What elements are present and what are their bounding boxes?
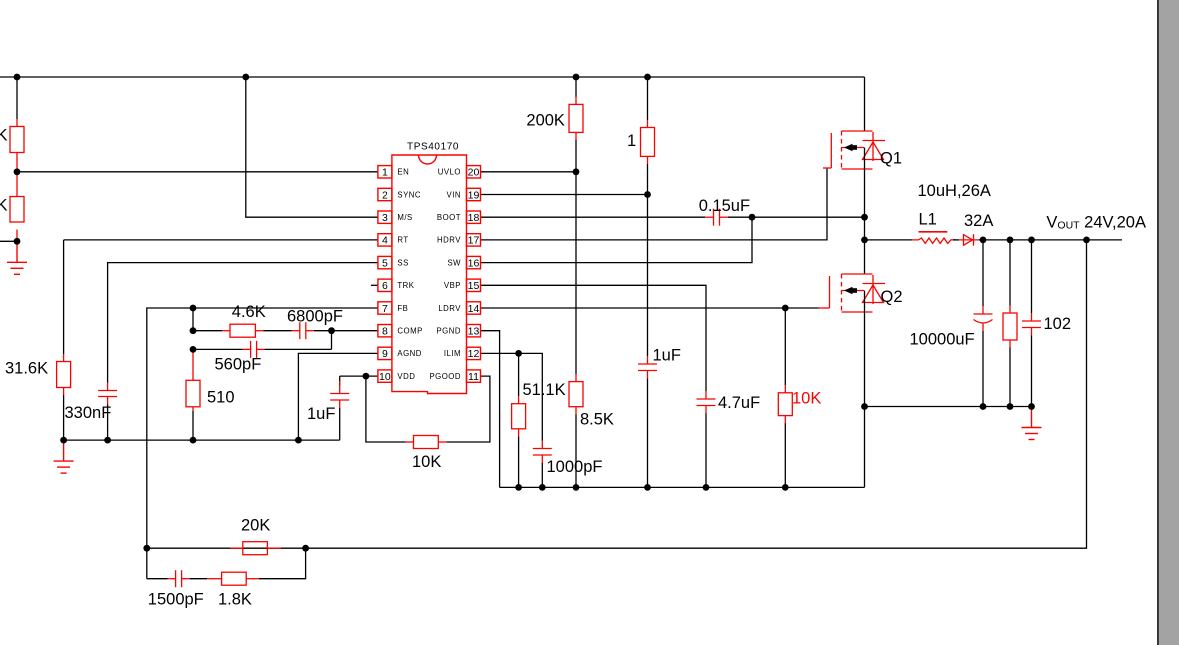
node vout 102 xyxy=(1028,237,1035,244)
svg-text:31.6K: 31.6K xyxy=(5,360,48,378)
wire M/S vertical from rail xyxy=(246,77,378,217)
node bottom rail 1uF xyxy=(644,484,651,491)
svg-text:TPS40170: TPS40170 xyxy=(407,142,459,153)
capacitor 0.15uF boot xyxy=(706,209,728,226)
node FB junction xyxy=(190,305,197,312)
VOUT rail wire xyxy=(979,239,1122,241)
svg-text:16: 16 xyxy=(468,257,480,269)
svg-text:AGND: AGND xyxy=(397,349,422,358)
node outlow resistor xyxy=(1007,403,1014,410)
svg-text:SS: SS xyxy=(397,258,408,267)
Q2 gate foot xyxy=(819,307,830,309)
bottom power-ground rail wire xyxy=(500,486,865,488)
svg-text:SW: SW xyxy=(447,258,461,267)
capacitor 102 xyxy=(1022,313,1041,336)
wire LDRV net pin 14 to Q2 gate xyxy=(481,307,819,309)
wire COMP junction riser for 560pF xyxy=(331,331,333,350)
transistor Q1 xyxy=(831,131,885,169)
svg-text:10000uF: 10000uF xyxy=(910,331,975,349)
wire feedback from VOUT xyxy=(147,240,1087,548)
wire AGND net xyxy=(298,353,378,440)
node agnd rail 31.6K xyxy=(60,437,67,444)
resistor 51.1K lead xyxy=(518,353,520,396)
inductor L1 winding xyxy=(912,238,956,243)
svg-text:1uF: 1uF xyxy=(307,405,335,423)
wire 10K lower gate resistor lead xyxy=(784,308,786,385)
wire 1ohm to VIN node xyxy=(647,164,649,195)
node vout feedback xyxy=(1083,237,1090,244)
wire TRK pin 6 stub xyxy=(371,284,378,286)
capacitor 1uF vin xyxy=(638,356,657,379)
node fb 20K right xyxy=(302,545,309,552)
diode 32A xyxy=(959,234,978,246)
node VIN junction xyxy=(644,191,651,198)
svg-text:VBP: VBP xyxy=(444,281,461,290)
ground symbol output xyxy=(1022,407,1042,440)
wire feedforward branch lower xyxy=(147,578,168,580)
node switch node inductor xyxy=(861,237,868,244)
resistor 1ohm xyxy=(641,120,655,164)
inductor L1 core bar xyxy=(919,231,948,233)
wire PGOOD pullup from VDD junction xyxy=(366,376,406,442)
svg-text:1000pF: 1000pF xyxy=(547,458,603,476)
wire 330nF to ground rail xyxy=(107,405,109,441)
svg-text:9: 9 xyxy=(382,348,388,360)
wire 1.8K to right corner xyxy=(259,548,306,579)
wire 200K to UVLO node xyxy=(575,140,577,172)
wire Q1 source to Q2 drain (switch node) xyxy=(864,148,866,275)
wire FB net xyxy=(147,308,378,548)
pin 16 box xyxy=(467,256,481,268)
svg-text:330nF: 330nF xyxy=(65,404,112,422)
svg-text:PGND: PGND xyxy=(436,327,461,336)
svg-text:20: 20 xyxy=(468,167,480,179)
svg-text:32A: 32A xyxy=(964,212,993,230)
svg-text:M/S: M/S xyxy=(397,213,412,222)
capacitor 330nF xyxy=(98,383,117,405)
svg-text:SYNC: SYNC xyxy=(397,190,421,199)
svg-text:10K: 10K xyxy=(412,453,441,471)
svg-text:1: 1 xyxy=(382,167,388,179)
wire ILIM net pin 12 xyxy=(481,353,543,440)
wire 560pF node down to 510 xyxy=(192,349,194,380)
wire 8.5K to bottom rail xyxy=(575,414,577,487)
wire output resistor branch xyxy=(1009,240,1011,306)
pin 11 box xyxy=(467,370,481,382)
node bottom rail 8.5K xyxy=(573,484,580,491)
node outlow ground xyxy=(1028,403,1035,410)
wire 31.6K to analog ground rail xyxy=(63,395,65,440)
pin 1 box xyxy=(378,166,392,178)
svg-text:PGOOD: PGOOD xyxy=(429,372,461,381)
wire 6800pF to COMP pin 8 xyxy=(314,330,378,332)
svg-text:20K: 20K xyxy=(241,517,270,535)
pin 4 box xyxy=(378,234,392,246)
wire 102 cap branch xyxy=(1031,240,1033,313)
wire 1000pF to bottom rail xyxy=(541,463,543,487)
wire VIN net pin 19 xyxy=(481,194,648,196)
resistor upper-left (label cut) lead wire xyxy=(16,77,18,119)
resistor 31.6K xyxy=(57,354,71,395)
wire FB divider vertical xyxy=(146,548,148,579)
svg-text:13: 13 xyxy=(468,326,480,338)
pin 5 box xyxy=(378,256,392,268)
node vout resistor xyxy=(1007,237,1014,244)
svg-text:510: 510 xyxy=(207,389,235,407)
node EN divider tap xyxy=(14,168,21,175)
wire 51.1K to bottom rail xyxy=(518,436,520,487)
svg-text:0.15uF: 0.15uF xyxy=(699,197,750,215)
pin 14 box xyxy=(467,302,481,314)
svg-text:L1: L1 xyxy=(919,211,937,229)
svg-text:VIN: VIN xyxy=(447,190,462,199)
wire 1uF vin to bottom rail xyxy=(647,379,649,488)
svg-text:5: 5 xyxy=(382,257,388,269)
wire inductor to diode xyxy=(953,239,959,241)
wire Q2 source down to rail xyxy=(864,291,866,488)
svg-text:1500pF: 1500pF xyxy=(148,591,204,609)
node VDD junction xyxy=(363,373,370,380)
pin 8 box xyxy=(378,325,392,337)
wire 560pF to riser xyxy=(265,348,332,350)
resistor 1.8K xyxy=(207,572,259,585)
resistor 8.5K xyxy=(569,374,583,414)
node vout 10000uF xyxy=(980,237,987,244)
svg-text:17: 17 xyxy=(468,235,480,247)
svg-text:TRK: TRK xyxy=(397,281,414,290)
wire 10K to PGOOD pin 11 xyxy=(446,376,490,442)
node agnd rail AGND xyxy=(295,437,302,444)
svg-text:Q1: Q1 xyxy=(880,150,902,168)
wire boot junction to switch node xyxy=(752,216,865,218)
wire RT net xyxy=(64,239,378,241)
pin 10 box xyxy=(378,370,392,382)
wire input stub left edge xyxy=(0,240,17,242)
wire 560pF branch xyxy=(193,348,243,350)
svg-text:6: 6 xyxy=(382,280,388,292)
wire output cap branch xyxy=(982,240,984,306)
svg-text:10: 10 xyxy=(379,371,391,383)
capacitor 1500pF xyxy=(168,570,190,587)
wire VDD net xyxy=(340,375,378,377)
op-amp U1 TPS40170 body xyxy=(392,155,467,394)
svg-text:EN: EN xyxy=(397,168,409,177)
node agnd rail 510 xyxy=(190,437,197,444)
svg-text:1: 1 xyxy=(627,132,636,150)
wire FB node to 4.6K xyxy=(193,330,222,332)
wire lower-left resistor to ground node xyxy=(16,230,18,242)
node fb 20K left xyxy=(143,545,150,552)
wire PGND net pin 13 xyxy=(481,331,500,488)
resistor 20K xyxy=(230,542,281,555)
svg-text:12: 12 xyxy=(468,348,480,360)
wire 510 to ground rail xyxy=(192,407,194,411)
wire BOOT net pin 18 xyxy=(481,216,706,218)
wire VIN node down to 1uF xyxy=(647,195,649,357)
wire output resistor to lower rail xyxy=(1009,348,1011,407)
node bottom rail 10K xyxy=(782,484,789,491)
svg-text:8.5K: 8.5K xyxy=(580,411,614,429)
svg-text:VDD: VDD xyxy=(397,372,415,381)
svg-text:8: 8 xyxy=(382,326,388,338)
node input rail / 200K xyxy=(573,74,580,81)
node bottom rail 1000pF xyxy=(539,484,546,491)
capacitor 1000pF xyxy=(533,441,552,464)
svg-text:1.8K: 1.8K xyxy=(218,591,252,609)
pin 7 box xyxy=(378,302,392,314)
svg-text:10K: 10K xyxy=(792,390,821,408)
pin 13 box xyxy=(467,325,481,337)
pin 6 box xyxy=(378,279,392,291)
svg-text:BOOT: BOOT xyxy=(437,213,461,222)
svg-text:2: 2 xyxy=(382,189,388,201)
node Q2 source out xyxy=(861,403,868,410)
wire 10000uF to lower rail xyxy=(982,331,984,407)
svg-text:11: 11 xyxy=(468,371,479,383)
ground symbol analog xyxy=(54,440,74,473)
svg-text:4: 4 xyxy=(382,235,388,247)
node bottom rail 51.1K xyxy=(515,484,522,491)
svg-text:K: K xyxy=(0,197,8,215)
wire SS net xyxy=(108,263,378,383)
resistor 51.1K xyxy=(512,396,526,436)
node bottom rail 4.7uF xyxy=(703,484,710,491)
svg-text:19: 19 xyxy=(468,189,480,201)
capacitor 10000uF polarized xyxy=(974,306,993,331)
svg-text:COMP: COMP xyxy=(397,327,422,336)
resistor 510 xyxy=(186,380,200,407)
resistor 200K top lead xyxy=(575,77,577,97)
svg-text:UVLO: UVLO xyxy=(438,168,461,177)
input rail (VIN bus) wire xyxy=(0,76,865,78)
svg-text:RT: RT xyxy=(397,236,408,245)
svg-text:15: 15 xyxy=(468,280,480,292)
pin 9 box xyxy=(378,347,392,359)
svg-text:200K: 200K xyxy=(526,112,565,130)
node COMP junction right xyxy=(328,327,335,334)
output lower rail wire xyxy=(865,406,1032,408)
node LDRV junction xyxy=(782,305,789,312)
node BOOT-SW junction xyxy=(749,214,756,221)
wire EN net to pin 1 xyxy=(17,171,378,173)
svg-text:LDRV: LDRV xyxy=(438,304,461,313)
svg-text:10uH,26A: 10uH,26A xyxy=(918,182,991,200)
svg-text:560pF: 560pF xyxy=(215,356,262,374)
wire VBP net pin 15 xyxy=(481,285,707,391)
svg-text:6800pF: 6800pF xyxy=(287,308,343,326)
svg-text:4.6K: 4.6K xyxy=(232,303,266,321)
capacitor 6800pF xyxy=(292,322,314,339)
node agnd rail 330nF xyxy=(104,437,111,444)
svg-text:3: 3 xyxy=(382,212,388,224)
wire SW net pin 16 xyxy=(481,217,753,262)
wire 1500pF to 1.8K xyxy=(190,578,208,580)
wire VDD decoupling riser xyxy=(339,376,341,385)
resistor R-upper-left body xyxy=(10,119,24,160)
transistor Q1 drain wire xyxy=(864,77,866,131)
wire COMP series branch from FB node xyxy=(192,308,194,331)
svg-text:1uF: 1uF xyxy=(653,347,681,365)
capacitor 1uF vdd xyxy=(330,393,349,400)
wire switch node to inductor xyxy=(865,239,913,241)
pin 15 box xyxy=(467,279,481,291)
svg-text:4.7uF: 4.7uF xyxy=(718,394,760,412)
pin 3 box xyxy=(378,211,392,223)
transistor Q2 xyxy=(830,274,886,312)
svg-text:102: 102 xyxy=(1044,315,1072,333)
wire boot cap to SW junction xyxy=(728,216,752,218)
node input rail / MS column xyxy=(242,74,249,81)
resistor 10K pgood pullup xyxy=(406,436,447,449)
resistor 4.6K xyxy=(222,324,263,337)
scrollbar xyxy=(1157,0,1159,645)
wire UVLO node down to 8.5K xyxy=(575,172,577,374)
resistor R-lower-left body xyxy=(16,172,18,197)
wire 10K red to bottom rail xyxy=(784,423,786,487)
node 560pF junction xyxy=(190,346,197,353)
svg-text:7: 7 xyxy=(382,303,388,315)
wire 1uF vdd to ground rail xyxy=(339,400,341,408)
svg-text:14: 14 xyxy=(468,303,480,315)
svg-text:HDRV: HDRV xyxy=(437,236,461,245)
resistor 200K xyxy=(569,97,583,140)
resistor 10K red label xyxy=(778,385,792,423)
svg-text:FB: FB xyxy=(397,304,408,313)
wire UVLO net pin 20 xyxy=(481,171,577,173)
ground symbol left input divider xyxy=(7,241,27,274)
node switch node boot xyxy=(861,214,868,221)
wire 4.7uF to bottom rail xyxy=(705,414,707,488)
pin 12 box xyxy=(467,347,481,359)
svg-text:51.1K: 51.1K xyxy=(523,381,566,399)
node outlow 10000uF xyxy=(980,403,987,410)
resistor 1ohm top lead xyxy=(647,77,649,120)
node input rail / left divider xyxy=(14,74,21,81)
node COMP junction left xyxy=(190,327,197,334)
resistor output bleeder xyxy=(1003,306,1017,348)
node divider bottom ground xyxy=(14,238,21,245)
node UVLO junction xyxy=(573,168,580,175)
svg-text:18: 18 xyxy=(468,212,480,224)
analog ground rail wire xyxy=(64,439,340,441)
wire between left divider resistors xyxy=(16,160,18,172)
capacitor 560pF xyxy=(243,341,265,358)
node input rail / 1ohm xyxy=(644,74,651,81)
svg-text:Q2: Q2 xyxy=(881,288,903,306)
pin 18 box xyxy=(467,211,481,223)
pin 20 box xyxy=(467,166,481,178)
svg-text:K: K xyxy=(0,127,8,145)
pin 2 box xyxy=(378,188,392,200)
capacitor 4.7uF xyxy=(697,391,716,414)
node ILIM junction xyxy=(515,350,522,357)
wire HDRV net pin 17 to Q1 gate xyxy=(481,168,828,240)
svg-text:VOUT 24V,20A: VOUT 24V,20A xyxy=(1046,214,1146,232)
wire 102 to lower rail xyxy=(1031,336,1033,407)
Q1 gate foot xyxy=(823,167,831,169)
wire 4.6K to 6800pF xyxy=(263,330,291,332)
svg-text:ILIM: ILIM xyxy=(444,349,461,358)
pin 17 box xyxy=(467,234,481,246)
pin 19 box xyxy=(467,188,481,200)
